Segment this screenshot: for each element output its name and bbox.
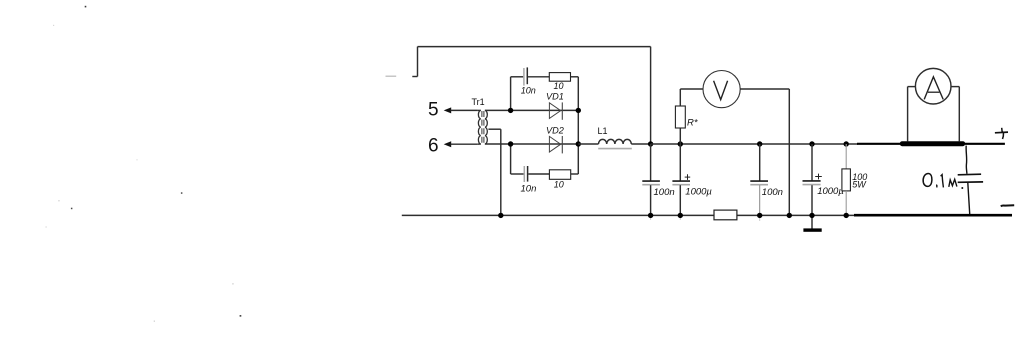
node dot anode VD1 xyxy=(508,108,513,113)
svg-text:10: 10 xyxy=(554,81,564,91)
scan specks mid-left xyxy=(58,200,59,201)
wire: top-left hook foot xyxy=(412,76,417,78)
in-line resistor (bottom rail, unlabeled) xyxy=(714,210,737,220)
scan speck top-left xyxy=(85,6,87,8)
capacitor 10n (top) xyxy=(523,68,525,86)
wire: thick output lead right of shunt xyxy=(965,143,1005,145)
wire: cathode column xyxy=(577,77,579,174)
wire: L1 to node C xyxy=(631,143,650,145)
transformer Tr1 core xyxy=(481,111,483,143)
svg-text:6: 6 xyxy=(428,136,439,157)
faint gray dash near hook xyxy=(386,75,397,77)
svg-text:1000µ: 1000µ xyxy=(817,186,844,197)
wire: bottom RC branch xyxy=(511,173,524,175)
arrow terminal 5 xyxy=(444,107,452,113)
wire: bottom return rail (thin) xyxy=(402,214,854,216)
wire: VD2 row xyxy=(511,143,579,145)
svg-text:1000µ: 1000µ xyxy=(685,186,712,197)
wire: center tap xyxy=(488,128,500,130)
transformer Tr1 secondary winding xyxy=(485,110,487,144)
wire: cathode node to L1 xyxy=(578,143,598,145)
svg-text:100n: 100n xyxy=(654,187,675,198)
node dot anode VD2 xyxy=(508,141,513,146)
node dot C xyxy=(648,141,653,146)
wire: bottom return rail (thick) xyxy=(854,214,1012,217)
svg-text:R*: R* xyxy=(687,118,698,129)
wire: voltmeter right xyxy=(740,88,789,90)
inductor L1 core (gray bar) xyxy=(598,148,632,150)
wire: hook vertical xyxy=(417,47,419,77)
capacitor 100n (first) xyxy=(650,144,652,181)
node dot E (100n second) xyxy=(757,141,762,146)
node dot center tap on bottom rail xyxy=(498,213,503,218)
node dot bottom C xyxy=(648,213,653,218)
capacitor 1000u (first, electrolytic) xyxy=(679,144,681,181)
node dot bottom E xyxy=(757,213,762,218)
shunt bar (heavy) xyxy=(900,141,965,146)
svg-text:5: 5 xyxy=(428,99,439,120)
handwritten label 0,1m xyxy=(923,174,932,187)
node dot bottom F xyxy=(809,213,814,218)
wire: long top horizontal xyxy=(418,46,651,48)
resistor 10 (top) xyxy=(549,73,570,82)
transformer Tr1 primary winding xyxy=(478,110,480,144)
ground xyxy=(811,215,813,228)
wire: thick output lead left of shunt xyxy=(857,143,901,145)
scan specks lower-left xyxy=(232,283,233,284)
wire: to voltmeter left xyxy=(680,88,703,90)
handwritten shunt capacitor xyxy=(965,146,968,174)
svg-text:100n: 100n xyxy=(762,187,783,198)
wire: vertical from top rail to node C xyxy=(650,47,652,144)
svg-text:10n: 10n xyxy=(521,183,537,194)
wire: voltmeter return drop xyxy=(788,89,790,215)
svg-text:VD1: VD1 xyxy=(546,92,564,102)
handwritten minus xyxy=(1001,205,1014,206)
handwritten plus xyxy=(995,131,1008,134)
capacitor 10n (bottom) xyxy=(523,166,525,182)
node dot F (1000u second) xyxy=(809,141,814,146)
svg-text:L1: L1 xyxy=(598,126,608,136)
voltmeter V xyxy=(703,71,740,108)
resistor 100 5W xyxy=(845,144,847,169)
svg-text:10n: 10n xyxy=(521,85,536,95)
svg-text:10: 10 xyxy=(554,179,564,189)
node dot G (load resistor top) xyxy=(844,141,849,146)
node dot cathode VD2 xyxy=(576,141,581,146)
svg-text:Tr1: Tr1 xyxy=(472,97,485,107)
node dot D (R* / 1000u) xyxy=(678,141,683,146)
node dot cathode VD1 xyxy=(576,108,581,113)
capacitor 100n (second) xyxy=(759,144,761,181)
arrow terminal 6 xyxy=(444,141,452,147)
ammeter A xyxy=(908,86,916,88)
capacitor 1000u (second, electrolytic) xyxy=(811,144,813,181)
svg-text:VD2: VD2 xyxy=(546,126,564,136)
svg-text:5W: 5W xyxy=(852,179,867,189)
wire: anode column lower segment xyxy=(510,144,512,174)
wire: VD1 row xyxy=(511,109,579,111)
resistor 10 (bottom) xyxy=(549,170,570,180)
wire: top RC branch xyxy=(511,76,524,78)
node dot bottom voltmeter return xyxy=(787,213,792,218)
plus mark of 1000u (first) xyxy=(685,176,691,178)
wire: main DC rail xyxy=(651,143,858,145)
node dot bottom D xyxy=(678,213,683,218)
node dot bottom G xyxy=(844,213,849,218)
plus mark of 1000u (second) xyxy=(815,176,822,178)
wire: anode column upper segment xyxy=(510,77,512,111)
resistor R* xyxy=(679,128,681,145)
